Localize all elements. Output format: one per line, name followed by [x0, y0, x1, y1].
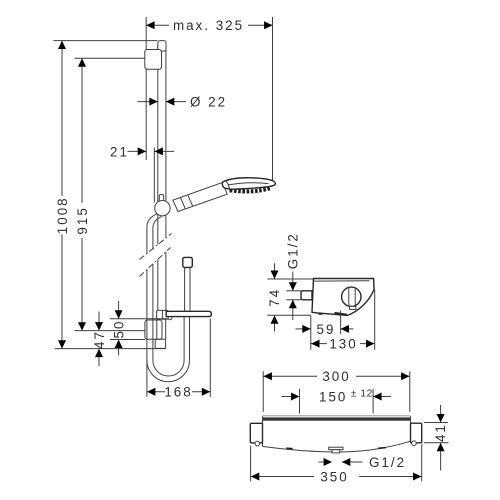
body bottom wave edge	[263, 441, 411, 452]
extension line body rear (130 right)	[374, 290, 376, 350]
bottom edge ticks	[286, 447, 292, 450]
dimension 47	[98, 312, 100, 331]
hand shower handle	[173, 182, 227, 211]
svg-text:130: 130	[329, 337, 357, 352]
svg-text:59: 59	[317, 322, 336, 337]
dimension 50	[118, 301, 120, 319]
hose u-bend outer	[147, 360, 190, 381]
hose riser (inner)	[183, 317, 185, 361]
porter arm (shelf)	[166, 311, 211, 316]
extension tick for 21 (hand shower holder face)	[153, 148, 155, 203]
head handle junction arc	[226, 181, 230, 192]
dimension 1008	[61, 41, 63, 196]
bracket lower step	[155, 339, 165, 348]
extension line 350 left	[250, 446, 252, 482]
thermostat body side view	[312, 279, 374, 316]
svg-text:max. 325: max. 325	[173, 18, 244, 33]
body left edge	[262, 416, 264, 446]
leader line bracket top (915)	[75, 57, 145, 59]
leader line body bottom (74)	[267, 314, 311, 316]
right supply elbow	[411, 423, 422, 443]
dimension Ø 22	[138, 101, 158, 103]
svg-text:350: 350	[320, 469, 348, 484]
extension line 168 right (porter edge)	[209, 319, 211, 397]
head rim inner line	[229, 183, 269, 185]
svg-text:41: 41	[433, 423, 448, 442]
dimension 300	[264, 375, 318, 377]
slider knob	[155, 201, 170, 216]
extension line 300 left	[262, 371, 264, 412]
dimension 59	[296, 328, 311, 330]
left supply elbow	[250, 423, 262, 443]
leader line elbow top (41)	[424, 422, 448, 424]
extension line 168 left	[146, 360, 148, 397]
shower rail tube right edge (with break gap)	[165, 45, 167, 238]
wall bracket top	[145, 50, 162, 70]
dimension 915	[81, 58, 83, 203]
svg-text:G1/2: G1/2	[285, 232, 300, 269]
leader line top of rail (1008)	[53, 40, 157, 42]
svg-text:300: 300	[322, 369, 350, 384]
porter hook	[168, 317, 172, 320]
extension line 300 right	[409, 371, 411, 412]
hand shower head	[222, 178, 275, 189]
foot ticks under body	[318, 313, 322, 315]
svg-text:168: 168	[164, 385, 192, 400]
svg-text:21: 21	[110, 144, 129, 159]
label G1/2 front view with arrows to outlet	[319, 461, 324, 463]
extension line right for max.325 (down to hand shower tip)	[272, 17, 274, 181]
hose connector cap	[183, 257, 193, 267]
svg-text:1008: 1008	[55, 196, 70, 234]
left elbow screw	[255, 441, 260, 446]
supply stub side view	[301, 291, 312, 300]
break cut line upper (dash-dot)	[140, 234, 172, 260]
leader line bracket centre (915 / 47 top)	[75, 330, 145, 332]
svg-text:915: 915	[75, 206, 90, 234]
svg-text:50: 50	[111, 320, 126, 339]
hose upper section from hand shower down (outer edge)	[147, 214, 157, 254]
G1/2 pointer lines and arrows to supply stub	[292, 272, 294, 291]
wall bracket bottom	[145, 320, 162, 339]
body top thin highlight line	[263, 415, 411, 417]
select knob side view	[342, 287, 361, 306]
svg-text:74: 74	[267, 288, 282, 307]
body top dark band	[263, 417, 411, 421]
leader line rail bottom end (1008 / 47 bottom)	[55, 348, 166, 350]
shower rail tube left edge (with break gap)	[157, 45, 159, 245]
hose lower section (inner)	[152, 264, 154, 360]
handle ring joint lines	[188, 195, 193, 206]
extension line knob front (59 right)	[340, 311, 342, 335]
bottom outlet connector flange	[329, 447, 343, 450]
dimension 350	[251, 476, 314, 478]
body top inner line	[313, 280, 369, 282]
right elbow screw	[412, 441, 417, 446]
dimension 130	[311, 343, 327, 345]
dimension 168	[147, 391, 165, 393]
hose riser to porter (outer)	[189, 317, 191, 361]
leader line porter underside (50 top)	[110, 318, 167, 320]
svg-text:Ø 22: Ø 22	[190, 94, 227, 109]
hose connector stem above porter	[184, 267, 186, 311]
hose u-bend inner	[153, 360, 184, 376]
break cut line lower (dash-dot)	[140, 248, 171, 277]
dimension 150 +/- 12	[282, 396, 292, 398]
svg-text:G1/2: G1/2	[369, 455, 406, 470]
leader line bracket bottom (50 bottom)	[110, 339, 145, 341]
extension line 350 right	[421, 444, 423, 481]
hose lower section to u-bend (outer, resumes after break)	[146, 270, 148, 360]
rail bottom end block	[157, 310, 169, 319]
stub top/bottom leader lines	[286, 290, 301, 292]
dimension 41	[440, 405, 442, 422]
slider hook tab	[159, 195, 163, 203]
dimension 21	[128, 150, 147, 152]
bottom outlet connector stem	[332, 450, 340, 453]
extension line left (wall) for max.325 and 21	[145, 17, 147, 160]
svg-text:47: 47	[92, 330, 107, 349]
spray face (nozzle band)	[230, 188, 270, 191]
leader line elbow bottom (41)	[424, 442, 449, 444]
body right edge	[410, 416, 412, 441]
rail top end cap	[158, 41, 166, 52]
dimension max. 325	[146, 24, 169, 26]
extension line body front bottom (59/130 left)	[310, 316, 312, 350]
dimension 74	[274, 263, 276, 279]
leader line body top (74)	[267, 278, 313, 280]
svg-text:150 ± 12: 150 ± 12	[319, 388, 373, 404]
extension line 150 right	[372, 389, 374, 414]
hose upper section (inner edge)	[153, 217, 162, 250]
extension line 150 left	[299, 389, 301, 414]
